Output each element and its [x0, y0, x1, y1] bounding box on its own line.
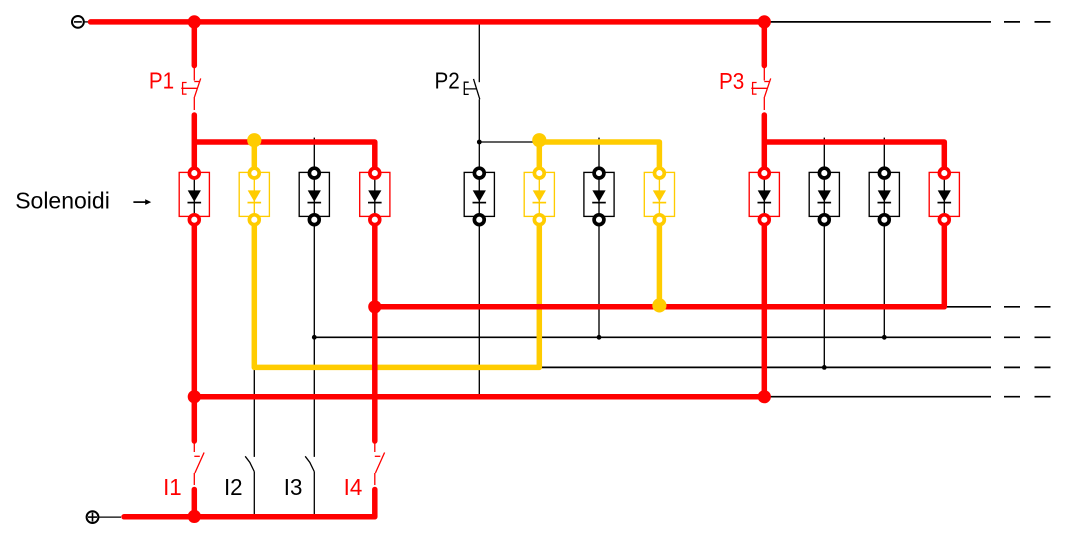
arrow pointing to solenoids [133, 199, 151, 205]
junction node row2 / group3 column3 [882, 335, 887, 340]
wire top supply bus red [91, 19, 765, 25]
solenoid G3-4 body [929, 168, 959, 224]
svg-text:P3: P3 [719, 68, 744, 95]
solenoid G2-4 body [644, 168, 674, 224]
wire group1 column1 lower red [192, 220, 198, 441]
wire group2 column1 lower [478, 220, 480, 397]
junction node row1 yellow tap [652, 298, 666, 312]
wire group3 column1 lower red [762, 220, 768, 397]
wire group3 column2 lower [823, 220, 825, 368]
wire row2 bus black [314, 336, 1050, 338]
wire group1 column3 lower [313, 220, 315, 457]
junction node row-col2 / group3 column2 [822, 365, 827, 370]
junction node group2 bus yellow tap [532, 133, 546, 147]
solenoid G2-2 body [524, 168, 554, 224]
wire I1 to bottom bus [192, 490, 198, 517]
wire group2 column3 upper stub [598, 138, 600, 174]
solenoid G1-4 body [360, 168, 390, 224]
svg-text:I4: I4 [344, 473, 363, 500]
wire group1 column2 yellow drop [252, 140, 258, 173]
solenoid G3-2 body [809, 168, 839, 224]
solenoid G1-3 body [299, 168, 329, 224]
wire yellow link column2 group1 to group2 [254, 220, 539, 368]
wire bottom supply bus red [124, 490, 375, 517]
junction node group1 bus yellow tap [247, 133, 261, 147]
wire group3 red bus [764, 142, 944, 173]
pushbutton switch P1 contact [181, 68, 200, 110]
wire P3 to group3 bus [762, 115, 768, 173]
junction node row3 / I1 column [188, 390, 201, 403]
wire P2 node to group2 bus [479, 141, 539, 143]
junction node top bus / P1 [188, 15, 201, 28]
positive supply terminal (plus) [87, 511, 121, 523]
wire row3 bus red [194, 394, 764, 400]
pushbutton switch P3 contact [751, 68, 770, 110]
wire row1 bus red [375, 220, 945, 307]
solenoid G1-2 body [239, 168, 269, 224]
wire P1 upper drop [192, 22, 198, 66]
negative supply terminal (minus) [72, 16, 89, 28]
wire group1 red bus [194, 142, 374, 173]
wire group3 column2 upper stub [823, 138, 825, 174]
wire group3 column3 upper stub [883, 138, 885, 174]
solenoid G3-1 body [749, 168, 779, 224]
switch I2 contact [245, 456, 254, 516]
wire group2 column2 yellow drop [537, 140, 543, 173]
wire P3 upper drop [762, 22, 768, 66]
junction node row2 / group2 column3 [597, 335, 602, 340]
svg-text:P1: P1 [149, 67, 174, 94]
junction node row1 / I4 column [368, 300, 381, 313]
wire group3 column3 lower [883, 220, 885, 338]
switch I3 contact [305, 456, 314, 516]
junction node top bus / P3 [758, 15, 771, 28]
wire group1 column3 upper stub [313, 138, 315, 174]
wire group2 yellow bus [539, 142, 659, 173]
pushbutton switch P2 contact [464, 22, 480, 173]
wire group1 column2 lower black to I2 [253, 367, 255, 457]
wire group1 column4 lower red [372, 220, 378, 441]
junction node row3 / group3 column1 [758, 390, 771, 403]
solenoid G1-1 body [179, 168, 209, 224]
svg-text:I1: I1 [163, 473, 182, 500]
junction node bottom bus / I1 [188, 510, 201, 523]
wire row-col2 bus black continuation [539, 366, 1050, 368]
switch I4 contact [375, 443, 385, 485]
solenoid G2-1 body [464, 168, 494, 224]
wire group2 column3 lower [598, 220, 600, 338]
wire top bus black continuation [765, 21, 1051, 23]
junction node row2 / group1 column3 [312, 335, 317, 340]
solenoid G2-3 body [584, 168, 614, 224]
solenoid G3-3 body [869, 168, 899, 224]
wire row1 black continuation [946, 306, 1050, 308]
wire row3 black continuation [765, 396, 1051, 398]
wire P1 to group1 bus [192, 115, 198, 173]
switch I1 contact [194, 443, 204, 485]
svg-text:I3: I3 [284, 473, 303, 500]
svg-text:I2: I2 [224, 473, 243, 500]
wire group2 column4 yellow lower [657, 220, 663, 306]
junction node P2 / group2 bus [477, 140, 482, 145]
svg-text:Solenoidi: Solenoidi [15, 188, 110, 214]
svg-text:P2: P2 [435, 67, 460, 94]
